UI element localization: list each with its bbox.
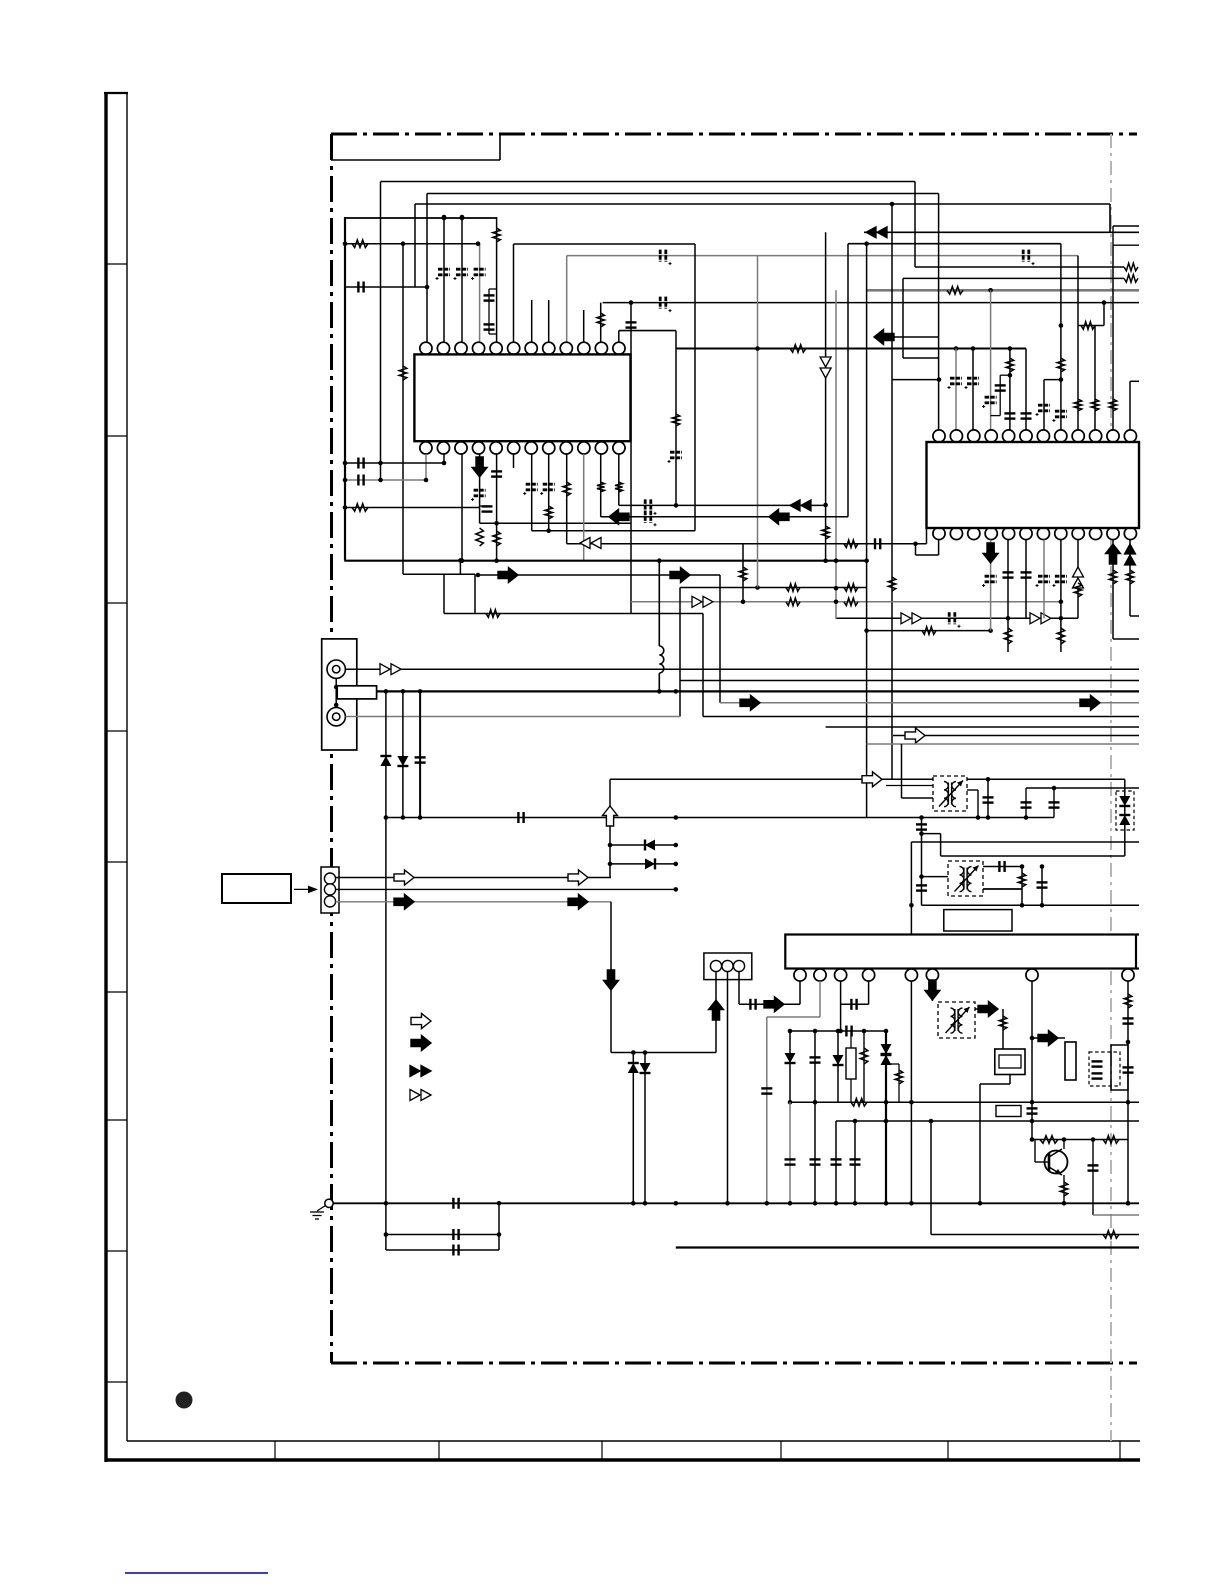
electrolytic capacitor <box>1038 405 1050 411</box>
IC U2 top pin <box>985 430 997 442</box>
capacitor <box>453 1229 458 1240</box>
wire <box>1129 540 1131 617</box>
junction <box>546 528 551 533</box>
CN3 pin <box>710 960 721 971</box>
junction <box>608 862 613 867</box>
wire <box>715 972 717 1053</box>
wire <box>294 888 313 890</box>
jack J1 center <box>333 666 340 673</box>
arrow right (filled) <box>740 695 760 710</box>
wire <box>610 778 933 780</box>
capacitor <box>1021 572 1032 577</box>
wire <box>461 454 463 560</box>
electrolytic capacitor <box>645 499 651 511</box>
IC U2 top pin <box>1003 430 1015 442</box>
wire <box>941 855 1125 857</box>
arrow left (filled) <box>609 509 629 524</box>
wire <box>738 972 740 1005</box>
IC U2 bottom pin <box>1037 527 1049 539</box>
junction <box>853 1201 858 1206</box>
wire <box>1060 618 1062 652</box>
transformer T2 symbol <box>955 866 979 892</box>
wire <box>886 785 933 787</box>
junction <box>674 843 679 848</box>
capacitor <box>875 538 880 549</box>
bus wire <box>826 726 1139 728</box>
wire <box>938 540 940 556</box>
resistor <box>1126 570 1134 584</box>
wire <box>979 1084 981 1203</box>
wire <box>915 266 1124 268</box>
wire <box>977 790 979 818</box>
wire <box>1093 1214 1139 1216</box>
IC U2 bottom pin <box>933 527 945 539</box>
capacitor <box>358 458 363 469</box>
junction <box>497 1201 502 1206</box>
label box <box>996 1106 1021 1117</box>
wire <box>983 866 1022 868</box>
resistor <box>844 540 858 548</box>
double arrow left (open) <box>580 538 601 549</box>
junction <box>1008 346 1013 351</box>
wire <box>903 277 1124 279</box>
wire <box>1113 225 1139 227</box>
page number dot <box>176 1392 193 1409</box>
wire <box>931 1234 1139 1236</box>
junction <box>674 862 679 867</box>
capacitor <box>415 757 426 762</box>
junction <box>384 1201 389 1206</box>
junction <box>834 586 839 591</box>
frame scale tick <box>106 1119 127 1121</box>
wire <box>479 244 481 342</box>
wire <box>385 691 387 1203</box>
junction <box>1126 1201 1131 1206</box>
wire <box>990 290 992 430</box>
wire <box>489 333 497 335</box>
capacitor <box>761 1088 772 1093</box>
junction <box>864 558 869 563</box>
junction <box>1102 300 1107 305</box>
wire <box>402 244 404 575</box>
IC U1 top pin <box>578 342 590 354</box>
capacitor <box>846 1026 851 1037</box>
diode <box>380 756 391 766</box>
junction <box>643 1201 648 1206</box>
wire <box>1031 981 1033 1140</box>
connector jack block <box>322 639 357 750</box>
wire <box>886 1063 899 1065</box>
IC U2 bottom pin <box>1090 527 1102 539</box>
wire <box>611 1052 716 1054</box>
junction <box>954 346 959 351</box>
diode <box>628 1063 639 1073</box>
IC U1 top pin <box>508 342 520 354</box>
page frame inner left border <box>126 92 128 1441</box>
ground symbol lead <box>317 1206 326 1212</box>
wire <box>1000 374 1010 376</box>
CN2 pin <box>324 896 335 907</box>
wire <box>443 217 445 342</box>
capacitor <box>482 506 493 511</box>
junction <box>884 1201 889 1206</box>
IC U1 top pin <box>543 342 555 354</box>
IC U2 top pin <box>968 430 980 442</box>
diode <box>881 1055 892 1065</box>
wire <box>1007 540 1009 619</box>
diode <box>785 1053 796 1063</box>
wire <box>898 1064 900 1102</box>
frame scale tick <box>947 1441 949 1460</box>
wire <box>739 1003 800 1005</box>
legend arrow open <box>411 1014 431 1029</box>
arrow right (open) <box>568 870 588 885</box>
IC U2 bottom pin <box>1003 527 1015 539</box>
wire <box>403 573 475 575</box>
IC U1 bottom pin <box>490 442 502 454</box>
junction <box>1030 1137 1035 1142</box>
arrow right (filled) <box>1080 695 1100 710</box>
bus wire <box>885 1031 887 1203</box>
input label box <box>222 874 291 903</box>
junction <box>1062 1137 1067 1142</box>
capacitor <box>831 1159 842 1164</box>
frame scale tick <box>106 602 127 604</box>
frame scale tick <box>106 730 127 732</box>
bus wire <box>345 217 497 219</box>
bus wire <box>867 743 1139 745</box>
wire <box>799 981 801 1004</box>
wire <box>980 1083 1010 1085</box>
wire <box>1060 244 1062 430</box>
arrow left (filled) <box>769 509 789 524</box>
junction <box>378 461 383 466</box>
wire <box>644 1053 646 1204</box>
wire <box>601 516 848 518</box>
transformer T1 <box>933 776 967 811</box>
wire <box>847 244 849 517</box>
IC U1 bottom pin <box>525 442 537 454</box>
IC U1 top pin <box>437 342 449 354</box>
wire <box>694 244 696 531</box>
resistor <box>786 584 800 592</box>
electrolytic capacitor <box>985 576 997 582</box>
junction <box>1030 1036 1035 1041</box>
junction <box>862 1029 867 1034</box>
arrow right (open) <box>394 870 414 885</box>
bus wire <box>344 217 346 560</box>
bus wire <box>676 348 1026 350</box>
wire <box>975 1008 998 1010</box>
resistor <box>493 228 501 242</box>
junction <box>401 241 406 246</box>
wire <box>461 217 463 342</box>
junction <box>919 874 924 879</box>
IC U1 top pin <box>595 342 607 354</box>
wire <box>1077 540 1079 619</box>
arrow right (filled) <box>498 568 518 583</box>
double arrow right (open) <box>1030 613 1051 624</box>
arrow down (filled) <box>925 980 940 1000</box>
IC U2 bottom pin <box>1072 527 1084 539</box>
wire <box>901 744 903 798</box>
IC U3 pin <box>1026 969 1038 981</box>
IC U1 body <box>414 354 630 441</box>
junction <box>765 1201 770 1206</box>
arrow left (filled) <box>874 330 894 345</box>
wire <box>703 716 1139 718</box>
wire <box>835 1121 837 1203</box>
resistor <box>1124 994 1132 1008</box>
resistor <box>786 598 800 606</box>
junction <box>1030 1100 1035 1105</box>
page frame inner bottom border <box>127 1440 1140 1442</box>
oscillator box <box>1111 1045 1128 1090</box>
junction <box>1091 1137 1096 1142</box>
page frame outer bottom border <box>105 1458 1140 1462</box>
label box <box>944 910 1012 931</box>
wire <box>766 1017 768 1203</box>
wire <box>921 818 923 906</box>
junction <box>725 1201 730 1206</box>
wire <box>345 507 480 509</box>
bus wire <box>893 735 1139 737</box>
junction <box>418 815 423 820</box>
transformer T3 symbol <box>946 1007 970 1033</box>
resistor <box>1091 399 1099 411</box>
wire <box>1136 967 1139 969</box>
capacitor <box>995 385 1006 390</box>
wire <box>1112 540 1114 640</box>
wire <box>567 543 927 545</box>
connector CN3 <box>704 953 752 980</box>
transistor Q1 <box>1045 1151 1068 1174</box>
junction <box>788 1029 793 1034</box>
diode <box>645 858 655 869</box>
wire <box>1034 1140 1036 1163</box>
resistor <box>851 1099 867 1107</box>
IC U2 top pin <box>1020 430 1032 442</box>
bus wire <box>790 1101 1139 1103</box>
wire <box>496 454 498 561</box>
wire <box>1109 204 1111 232</box>
wire <box>632 1053 634 1204</box>
junction <box>823 558 828 563</box>
wire <box>864 231 1139 233</box>
junction <box>497 1232 502 1237</box>
junction <box>813 1029 818 1034</box>
resistor <box>844 584 858 592</box>
resistor <box>672 414 680 426</box>
IC U1 bottom pin <box>595 442 607 454</box>
jack J1 outer ring <box>327 660 345 678</box>
capacitor <box>453 1245 458 1256</box>
wire <box>1129 381 1131 430</box>
inductor <box>659 646 664 673</box>
junction <box>384 689 389 694</box>
resistor <box>1109 570 1117 584</box>
arrow right (filled) <box>394 894 414 909</box>
junction <box>401 689 406 694</box>
junction <box>909 1100 914 1105</box>
junction <box>643 1050 648 1055</box>
wire <box>658 560 660 646</box>
junction <box>741 600 746 605</box>
capacitor <box>851 999 856 1010</box>
wire <box>443 574 445 613</box>
IC U2 top pin <box>1072 430 1084 442</box>
board boundary top (dash-dot) <box>331 133 1137 136</box>
wire <box>1021 867 1023 906</box>
wire <box>609 779 611 877</box>
resistor <box>1124 275 1138 283</box>
ground symbol <box>310 1212 324 1219</box>
IC U2 body <box>927 442 1140 528</box>
wire <box>972 349 974 431</box>
diode <box>645 840 655 851</box>
junction <box>834 600 839 605</box>
wire <box>386 1249 499 1251</box>
wire <box>1112 226 1114 245</box>
junction <box>1059 377 1064 382</box>
wire <box>814 1102 816 1203</box>
wire <box>426 194 428 343</box>
junction <box>442 215 447 220</box>
ground bus <box>333 1202 1139 1204</box>
capacitor <box>518 812 523 823</box>
arrow right (open) <box>862 772 882 787</box>
capacitor <box>1004 413 1015 418</box>
junction <box>988 628 993 633</box>
IC U1 top pin <box>455 342 467 354</box>
arrow right (filled) <box>978 1002 998 1017</box>
wire <box>514 243 696 245</box>
IC U1 top pin <box>613 342 625 354</box>
wire <box>566 454 568 544</box>
resistor <box>1004 628 1012 644</box>
junction <box>986 815 991 820</box>
IC U3 pin <box>905 969 917 981</box>
resistor <box>352 240 368 248</box>
junction <box>1059 323 1064 328</box>
wire <box>1032 1037 1065 1039</box>
IC U1 bottom pin <box>420 442 432 454</box>
wire <box>742 544 744 602</box>
capacitor <box>1092 1061 1103 1066</box>
junction <box>1006 616 1011 621</box>
wire <box>1009 1075 1011 1085</box>
electrolytic capacitor <box>1038 576 1050 582</box>
jack J2 outer ring <box>327 708 345 726</box>
junction <box>1020 903 1025 908</box>
junction <box>674 503 679 508</box>
diode <box>833 1055 844 1065</box>
wire <box>675 331 677 506</box>
blue revision underline <box>125 1572 268 1574</box>
electrolytic capacitor <box>456 269 468 275</box>
IC U1 bottom pin <box>472 442 484 454</box>
resistor <box>739 567 747 581</box>
wire <box>841 1003 869 1005</box>
wire <box>548 454 550 531</box>
IC U1 bottom pin <box>508 442 520 454</box>
wire <box>891 204 893 779</box>
frame scale tick <box>1119 1441 1121 1460</box>
signal wire <box>346 668 1140 670</box>
wire <box>489 288 497 290</box>
resistor <box>615 482 623 492</box>
resistor <box>399 366 407 380</box>
ground terminal <box>325 1199 333 1207</box>
electrolytic capacitor <box>474 490 486 496</box>
capacitor <box>1037 882 1048 887</box>
capacitor <box>484 324 495 329</box>
junction <box>425 285 430 290</box>
CN3 pin <box>722 960 733 971</box>
wire <box>902 278 904 358</box>
junction <box>919 831 924 836</box>
wire <box>414 204 416 287</box>
IC U1 bottom pin <box>613 442 625 454</box>
resistor <box>1109 399 1117 411</box>
wire <box>345 243 480 245</box>
ceramic filter <box>1065 1042 1076 1080</box>
wire <box>680 587 867 589</box>
resistor <box>563 482 571 496</box>
crystal lead <box>850 1079 852 1102</box>
double arrow up (filled) <box>1125 544 1136 565</box>
wire <box>938 194 940 431</box>
junction <box>418 689 423 694</box>
wire <box>345 286 427 288</box>
junction <box>919 815 924 820</box>
electrolytic capacitor <box>660 250 666 262</box>
wire <box>1025 788 1027 818</box>
wire <box>1136 933 1139 935</box>
wire <box>874 336 939 338</box>
junction <box>384 1232 389 1237</box>
wire <box>863 1031 865 1102</box>
IC1 pin 6 stub <box>513 454 515 468</box>
wire <box>1130 380 1139 382</box>
wire <box>967 789 978 791</box>
board boundary bottom (dash-dot) <box>331 1362 1137 1365</box>
wire <box>513 244 515 342</box>
transformer T3 <box>938 1002 975 1038</box>
bus wire <box>922 904 1140 906</box>
double arrow right (open) <box>901 613 922 624</box>
wire <box>999 375 1001 415</box>
bus wire <box>415 203 1110 205</box>
electrolytic capacitor <box>645 511 651 523</box>
resistor <box>822 526 830 539</box>
capacitor <box>1027 1108 1038 1113</box>
IC1 pin 8 stub <box>548 300 550 342</box>
wire <box>987 779 989 817</box>
junction <box>343 505 348 510</box>
electrolytic capacitor <box>967 378 979 384</box>
wire <box>1113 638 1139 640</box>
junction <box>988 288 993 293</box>
wire <box>940 834 942 856</box>
junction <box>384 815 389 820</box>
junction <box>674 1201 679 1206</box>
IC U1 bottom pin <box>543 442 555 454</box>
capacitor <box>810 1159 821 1164</box>
double arrow down (open) <box>820 357 831 378</box>
arrow right (filled) <box>764 997 784 1012</box>
junction <box>1052 786 1057 791</box>
